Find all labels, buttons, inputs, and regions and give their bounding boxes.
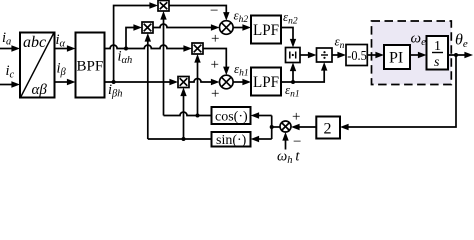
node on cos line feeding M3 — [196, 114, 200, 118]
svg-text:+: + — [211, 31, 219, 47]
block abc/alphabeta Clarke transform — [20, 33, 55, 98]
arrow M3 output into summer S2 top — [223, 67, 229, 76]
svg-text:2: 2 — [324, 121, 332, 138]
arrow -0.5 into PI — [375, 52, 384, 58]
arrow omega_h t into summer S3 bottom — [282, 132, 288, 141]
svg-text:−: − — [210, 3, 218, 19]
svg-text:BPF: BPF — [77, 59, 104, 75]
block divider — [317, 48, 333, 62]
arrow cos line into M3 bottom — [194, 54, 200, 63]
node on sin line feeding M4 — [182, 137, 186, 141]
wire theta_e output — [448, 54, 468, 56]
wire i_a input — [0, 48, 15, 50]
wire node i_beta_h to top line feeding M1 — [114, 6, 153, 83]
multiplier M1 — [158, 1, 169, 12]
wire i_alpha_h bus: BPF to multiplier M3, hops at x=113.6,147.8,163.5 — [105, 45, 187, 49]
arrow S2 into LPF2 — [242, 79, 251, 85]
summer S1 (eps_h2) — [220, 21, 234, 35]
node on theta_e output feeding feedback — [454, 53, 458, 57]
arrow i_beta into BPF — [67, 79, 76, 85]
wire M2 bottom from sin line — [147, 39, 149, 140]
block LPF1 — [251, 16, 281, 44]
wire eps_n1 node up to abs block bottom — [292, 68, 294, 82]
wire i_beta: abc/ab block to BPF — [55, 81, 71, 83]
svg-text:sin(·): sin(·) — [216, 133, 247, 148]
arrow into cos box right side — [251, 112, 260, 118]
wire M2 output to summer S1 left, hop at x=163.5 — [153, 24, 214, 27]
arrow S1 into LPF1 — [242, 24, 251, 30]
arrow cos line into M1 bottom — [160, 11, 166, 20]
wire i_alpha: abc/ab block to BPF — [55, 48, 71, 50]
wire eps_n1: LPF2 to abs bottom and divider bottom — [281, 68, 324, 83]
wire M3 bottom from cos line node — [197, 60, 199, 116]
arrow M2 output into summer S1 — [211, 24, 220, 30]
arrow i_c into abc block — [11, 81, 20, 87]
wire split to cos box input — [256, 115, 272, 117]
block LPF2 — [251, 68, 281, 96]
multiplier M2 — [142, 22, 153, 33]
wire eps_n: divider to -0.5 block — [332, 54, 341, 56]
wire M4 bottom from sin line node — [183, 93, 185, 139]
arrow sin line into M2 bottom — [145, 33, 151, 42]
arrow eps_n1 into abs block bottom — [290, 63, 296, 72]
node on i_beta_h line feeding M1 top line — [112, 80, 116, 84]
arrow i_beta_h line into M1 — [149, 2, 158, 8]
summer S3 (demodulation angle) — [280, 121, 291, 132]
arrow abs into divider — [308, 52, 317, 58]
wire abs block to divider — [300, 54, 311, 56]
wire M4 output to summer S2 left, hop at x=197.5 — [189, 79, 214, 83]
wire split node vertical — [271, 116, 273, 140]
arrow gain 2 into summer S3 — [291, 124, 300, 130]
wire -0.5 block to PI — [367, 54, 378, 56]
block PI — [384, 45, 410, 69]
svg-text:1: 1 — [434, 39, 441, 54]
arrow sin line into M4 bottom — [180, 88, 186, 97]
svg-text:LPF: LPF — [253, 22, 279, 39]
svg-text:cos(·): cos(·) — [215, 110, 248, 125]
dashed PLL observer region — [372, 21, 452, 85]
block abs |.| — [286, 48, 301, 63]
arrow eps_n2 into abs block top — [290, 39, 296, 48]
arrow PI into 1/s — [418, 52, 427, 58]
wire eps_n2: LPF1 to abs block top — [281, 28, 293, 43]
svg-text:+: + — [211, 57, 219, 73]
wire M1 output to summer S1 top — [169, 6, 226, 16]
arrow theta_e output — [464, 52, 473, 58]
svg-text:+: + — [211, 86, 219, 102]
arrow i_alpha_h node into M2 — [133, 24, 142, 30]
svg-text:abc: abc — [23, 34, 46, 51]
summer S2 (eps_h1) — [220, 75, 234, 89]
wire theta_e feedback down and left into gain 2 block — [346, 55, 457, 127]
block gain 2 — [316, 117, 340, 139]
wire gain 2 block to summer S3 — [297, 126, 317, 128]
arrow into sin box right side — [251, 136, 260, 142]
svg-text:-0.5: -0.5 — [347, 49, 367, 64]
wire summer S1 to LPF1 — [233, 27, 245, 29]
node on i_alpha_h line feeding M2 — [124, 47, 128, 51]
multiplier M3 — [192, 43, 203, 54]
svg-text:LPF: LPF — [253, 74, 279, 91]
wire omega_h t into summer S3 bottom — [285, 138, 287, 150]
arrow i_beta_h into M4 — [169, 79, 178, 85]
block cos — [212, 107, 251, 124]
wire summer S2 to LPF2 — [233, 81, 245, 83]
wire summer S3 output to split node — [272, 126, 280, 128]
wire node i_alpha_h up into M2 left — [126, 28, 137, 49]
block sin — [212, 132, 251, 147]
node on eps_n1 line feeding abs block — [291, 80, 295, 84]
svg-text:PI: PI — [389, 50, 403, 67]
svg-text:+: + — [292, 109, 300, 125]
arrow M4 output into summer S2 — [211, 79, 220, 85]
arrow feedback into gain 2 right side — [340, 124, 349, 130]
wire i_c input — [0, 84, 15, 86]
arrow M1 output into summer S1 top — [223, 12, 229, 21]
arrow i_alpha_h into M3 — [183, 45, 192, 51]
node on S3 output split — [270, 125, 274, 129]
wire split to sin box input — [256, 138, 272, 140]
wire M1 bottom from cos line — [163, 17, 165, 116]
wire M3 output to summer S2 top — [203, 49, 226, 70]
multiplier M4 — [178, 77, 189, 88]
arrow eps_n1 into divider bottom — [321, 62, 327, 71]
arrow eps_n into -0.5 block — [337, 52, 346, 58]
wire sin line: sin box to corner, dot feeds M4 — [148, 138, 212, 140]
block -0.5 — [346, 45, 367, 66]
wire i_beta_h bus: BPF to multiplier M4 — [105, 81, 173, 83]
block integrator 1/s — [427, 36, 449, 70]
svg-text:αβ: αβ — [32, 82, 48, 98]
block BPF — [76, 33, 105, 98]
arrow i_alpha into BPF — [67, 45, 76, 51]
wire PI to integrator 1/s — [410, 54, 421, 56]
wire cos line: cos box to corner, hop at x=183.5 — [164, 112, 212, 116]
svg-text:s: s — [434, 55, 440, 70]
arrow i_a into abc block — [11, 45, 20, 51]
